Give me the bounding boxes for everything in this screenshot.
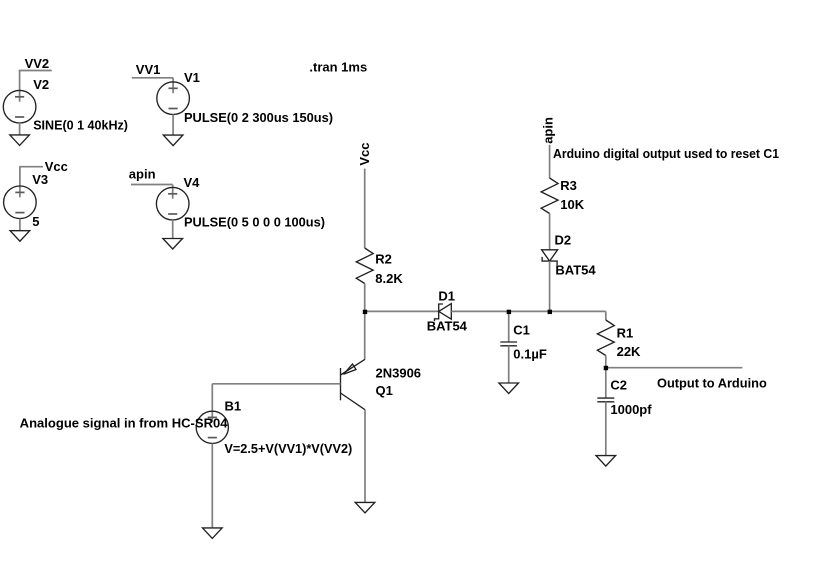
wire <box>19 167 21 198</box>
wire <box>172 78 174 93</box>
wire <box>605 311 607 320</box>
svg-text:8.2K: 8.2K <box>375 271 403 286</box>
resistor R1 <box>597 320 614 356</box>
wire (emitter lead) <box>364 311 366 359</box>
diode D2 BAT54 <box>542 250 558 265</box>
wire <box>451 310 606 312</box>
wire <box>365 310 439 312</box>
svg-text:C2: C2 <box>610 378 627 393</box>
svg-text:Output to Arduino: Output to Arduino <box>657 376 767 391</box>
wire <box>549 261 551 311</box>
wire <box>508 311 510 342</box>
wire <box>172 115 174 136</box>
svg-text:1000pf: 1000pf <box>610 402 652 417</box>
svg-text:Vcc: Vcc <box>357 142 372 165</box>
svg-text:V2: V2 <box>33 77 49 92</box>
svg-text:0.1µF: 0.1µF <box>513 347 547 362</box>
svg-text:apin: apin <box>540 117 555 144</box>
svg-text:D2: D2 <box>555 233 572 248</box>
capacitor C1 <box>500 342 517 346</box>
wire <box>364 284 366 312</box>
svg-text:Q1: Q1 <box>376 383 393 398</box>
wire <box>19 166 43 168</box>
node junction <box>363 310 367 314</box>
wire <box>172 185 174 199</box>
resistor R3 <box>541 178 558 214</box>
node junction <box>548 310 552 314</box>
wire <box>549 214 551 250</box>
wire <box>364 169 366 248</box>
node junction <box>507 310 511 314</box>
svg-text:BAT54: BAT54 <box>555 263 596 278</box>
svg-text:Analogue signal in from HC-SR0: Analogue signal in from HC-SR04 <box>20 416 229 431</box>
ground <box>596 456 616 467</box>
svg-text:5: 5 <box>32 214 39 229</box>
svg-text:R2: R2 <box>375 252 392 267</box>
svg-text:B1: B1 <box>225 399 242 414</box>
svg-text:Arduino digital output used to: Arduino digital output used to reset C1 <box>553 146 779 161</box>
svg-text:PULSE(0 5 0 0 0 100us): PULSE(0 5 0 0 0 100us) <box>184 215 325 230</box>
wire <box>549 145 551 178</box>
ground <box>499 383 519 394</box>
voltage source V2 <box>3 90 36 123</box>
wire <box>211 443 213 528</box>
wire <box>605 402 607 456</box>
resistor R2 <box>356 248 373 284</box>
capacitor C2 <box>597 398 614 402</box>
ground <box>355 502 375 513</box>
svg-text:2N3906: 2N3906 <box>376 365 422 380</box>
svg-text:Vcc: Vcc <box>45 159 68 174</box>
voltage source V4 <box>156 187 189 220</box>
svg-text:R1: R1 <box>617 326 634 341</box>
wire (collector lead) <box>364 410 366 503</box>
wire <box>132 77 173 79</box>
svg-text:.tran 1ms: .tran 1ms <box>309 60 367 75</box>
svg-text:VV1: VV1 <box>136 62 161 77</box>
transistor Q1 2N3906 <box>341 359 366 409</box>
wire <box>172 220 174 239</box>
ground <box>10 231 30 242</box>
diode D1 BAT54 <box>435 304 452 322</box>
wire <box>19 70 52 72</box>
svg-text:10K: 10K <box>560 197 584 212</box>
wire <box>19 71 21 102</box>
wire <box>131 184 173 186</box>
ground <box>163 239 183 250</box>
svg-text:VV2: VV2 <box>25 56 50 71</box>
svg-text:V1: V1 <box>184 70 200 85</box>
ground <box>203 528 223 539</box>
wire (output to Arduino) <box>606 367 743 369</box>
wire <box>19 219 21 231</box>
voltage source V1 <box>157 82 190 115</box>
svg-text:D1: D1 <box>438 288 455 303</box>
svg-text:V=2.5+V(VV1)*V(VV2): V=2.5+V(VV1)*V(VV2) <box>224 441 352 456</box>
ground <box>10 135 30 146</box>
node junction <box>604 366 608 370</box>
wire (base) <box>212 383 340 385</box>
wire <box>19 123 21 135</box>
ground <box>163 135 183 146</box>
svg-text:apin: apin <box>129 167 156 182</box>
svg-text:V3: V3 <box>32 172 48 187</box>
svg-text:C1: C1 <box>513 323 530 338</box>
voltage source V3 <box>4 186 37 219</box>
svg-text:22K: 22K <box>617 344 641 359</box>
svg-text:SINE(0 1 40kHz): SINE(0 1 40kHz) <box>33 118 128 133</box>
svg-text:V4: V4 <box>184 175 201 190</box>
behavioral source B1 <box>196 411 228 443</box>
svg-text:R3: R3 <box>560 178 577 193</box>
wire <box>508 346 510 383</box>
svg-text:BAT54: BAT54 <box>427 318 468 333</box>
wire <box>605 368 607 398</box>
wire <box>211 384 213 423</box>
wire <box>605 356 607 368</box>
svg-text:PULSE(0 2 300us 150us): PULSE(0 2 300us 150us) <box>184 110 333 125</box>
